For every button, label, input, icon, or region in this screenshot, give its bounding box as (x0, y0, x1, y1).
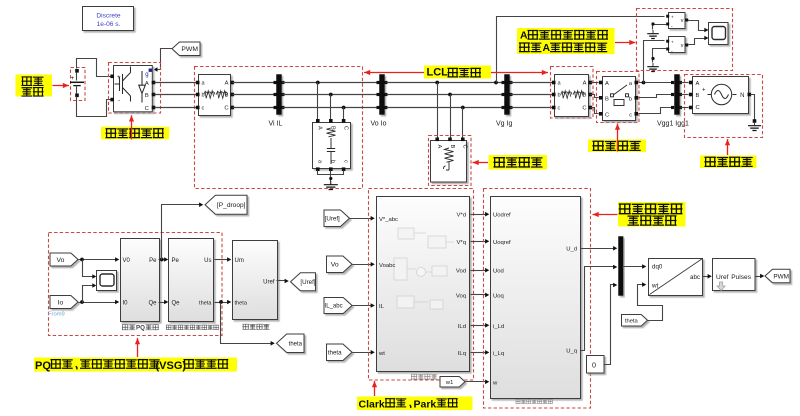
red arrow LCL right (491, 72, 548, 74)
svg-text:[P_droop]: [P_droop] (217, 202, 246, 209)
svg-text:b: b (558, 93, 561, 99)
subsystem reference voltage 参考电压 (233, 241, 278, 320)
wire battery plus to inverter + (77, 59, 111, 77)
svg-text:A: A (317, 126, 323, 130)
wire phase A down to capacitor block (317, 83, 319, 120)
From tag Vo (transform) (327, 256, 353, 273)
wires VoIo to VgIg phase A (387, 82, 503, 84)
svg-text:IL_abc: IL_abc (325, 304, 343, 310)
svg-text:b: b (629, 96, 632, 102)
label dual loop control 电压电流双闭环控制 (618, 202, 686, 227)
constant block 0 (587, 356, 605, 374)
local load red dashed box (429, 136, 472, 186)
svg-text:B: B (696, 93, 700, 99)
wires phase C (387, 107, 503, 109)
measurement bar Vi IL (277, 75, 282, 115)
dq0 to abc transform block (649, 259, 703, 296)
svg-text:c: c (343, 160, 349, 163)
svg-text:A: A (436, 145, 442, 149)
wire bus phase A inverter to L1 (155, 82, 197, 84)
From tag IL_abc (324, 298, 352, 314)
ground under capacitor block (330, 181, 332, 185)
voltage measurement block VM2 (669, 37, 686, 53)
svg-text:C: C (582, 106, 586, 112)
label phase A voltages 2-line (517, 28, 615, 54)
svg-text:B: B (145, 93, 149, 99)
wire U_q to mux (581, 267, 615, 351)
red arrow LCL left (364, 72, 424, 74)
svg-text:V0: V0 (123, 258, 131, 264)
LCL filter inverter-side inductor block L1 (199, 75, 231, 116)
junction node load tap C (461, 106, 465, 110)
svg-text:Us: Us (204, 258, 211, 264)
svg-text:v: v (681, 43, 684, 49)
label DC power 直流电源 (16, 75, 53, 97)
local load resistor icon (444, 148, 454, 170)
three-phase inverter bridge U1 red dashed box (109, 63, 161, 114)
subsystem VSG control 虚拟同步发电机控制 (169, 239, 214, 322)
Goto tag theta (left) (277, 334, 305, 353)
svg-text:I0: I0 (123, 301, 129, 307)
junction phase A to voltage measurement (494, 81, 498, 85)
red arrow to measurement box (615, 42, 636, 44)
wire U_d to mux (581, 248, 615, 250)
wires phase B (387, 94, 503, 96)
wire load tap B down (450, 95, 452, 139)
label inverter 三相逆变桥 (101, 127, 169, 140)
red arrow up to PQ box (137, 338, 139, 357)
From tag Uref -> Vabc ref (324, 210, 350, 227)
svg-text:C: C (605, 112, 609, 118)
svg-text:Io: Io (58, 299, 64, 306)
three-phase AC source block (693, 77, 749, 114)
mux bar (619, 237, 624, 296)
junction node load tap B (448, 93, 452, 97)
svg-text:Qe: Qe (148, 301, 157, 307)
svg-text:Voq: Voq (456, 293, 466, 299)
wire breaker a to Vgg1 (639, 82, 673, 84)
svg-text:wt: wt (378, 351, 385, 357)
wire theta to wt (353, 352, 373, 354)
LCL filter capacitor block (three-phase RC) (313, 123, 351, 169)
svg-text:U_d: U_d (566, 247, 577, 253)
Goto tag Uref (291, 273, 316, 291)
wire load tap A down (437, 83, 439, 139)
wire tap up to Va measurement (497, 17, 665, 83)
PWM generator block Uref Pulses (713, 259, 756, 291)
wire IL_abc to IL (353, 305, 373, 307)
svg-text:B: B (449, 145, 455, 149)
svg-text:+: + (117, 75, 121, 81)
wire battery minus to inverter - (77, 97, 111, 117)
junction node load tap A (435, 81, 439, 85)
svg-text:A: A (520, 30, 528, 42)
VSG block name (166, 325, 218, 329)
svg-text:wt: wt (651, 283, 658, 290)
svg-text:+: + (671, 14, 674, 19)
wire VgIg to L2 phase B (511, 94, 553, 96)
svg-text:i_Lq: i_Lq (493, 351, 504, 357)
scope block (two traces) (709, 23, 729, 45)
svg-text:Vo: Vo (331, 262, 339, 269)
label PQ VSG control (34, 358, 237, 372)
PWM generator down-arrow icon (717, 282, 725, 291)
wire transform output 6 to dual-loop input 6 (471, 352, 487, 354)
subsystem real-time PQ calculation (121, 239, 160, 322)
capacitor block RC icon (327, 128, 336, 164)
wire N to ground (751, 95, 755, 120)
VM2 minus to ground (653, 49, 667, 63)
red arrow to DC source (53, 85, 70, 87)
svg-text:abc: abc (690, 274, 700, 281)
svg-text:From9: From9 (48, 312, 65, 318)
wire theta down to theta goto (221, 303, 273, 344)
Goto tag P_droop (205, 195, 247, 214)
label Clark Park transforms (357, 397, 473, 411)
svg-text:A: A (696, 81, 700, 87)
transform block name 坐标变换 (411, 374, 437, 379)
wire cap b to ground (330, 171, 332, 185)
ref voltage block name 参考电压 (243, 324, 269, 329)
svg-text:c: c (202, 106, 205, 112)
svg-text:Um: Um (235, 258, 244, 264)
svg-text:theta: theta (625, 318, 639, 324)
wire mux to dq0 (623, 266, 645, 268)
svg-text:Vo: Vo (56, 257, 64, 264)
svg-text:ILd: ILd (458, 324, 466, 330)
From tag Vo (50, 253, 78, 266)
Clark Park transform red dashed box (369, 189, 474, 381)
svg-text:V*q: V*q (457, 240, 467, 246)
svg-text:PWM: PWM (773, 273, 789, 280)
wire Vgg1 to source C (681, 107, 689, 109)
svg-text:c: c (629, 112, 632, 118)
svg-text:U_q: U_q (566, 349, 577, 355)
measurement bar Vo Io (380, 75, 385, 115)
wire breaker c to Vgg1 (639, 108, 673, 114)
svg-text:PQ: PQ (136, 325, 145, 332)
svg-text:PWM: PWM (181, 46, 198, 53)
svg-text:c: c (558, 106, 561, 112)
svg-text:Vo Io: Vo Io (371, 121, 387, 128)
wire Vo to Voabc (353, 264, 373, 266)
wire phase C (283, 107, 379, 109)
wire L2 B to breaker B (591, 95, 599, 98)
svg-text:Uodref: Uodref (493, 213, 511, 219)
AC grid red dashed box (685, 75, 763, 138)
powergui block Discrete 1e-06 s. (83, 7, 134, 31)
svg-text:theta: theta (235, 301, 248, 307)
wire L2 A to breaker A (591, 82, 599, 84)
svg-text:Qe: Qe (172, 301, 181, 307)
From tag theta (transform) (327, 344, 353, 361)
red arrow left to dual loop box (593, 214, 618, 216)
wire transform output 1 to dual-loop input 1 (471, 214, 487, 216)
dual loop block name 电压电流双闭环 (516, 400, 553, 404)
wire Io branch to scope1 (83, 286, 95, 303)
junction phase a to grid voltage measurement (642, 81, 646, 85)
wire Pe to VSG (159, 259, 167, 261)
wire bus phase B inverter to L1 (155, 94, 197, 96)
svg-text:Uref: Uref (716, 274, 729, 281)
label AC grid 交流电网 (700, 156, 757, 169)
svg-text:dq0: dq0 (652, 264, 663, 271)
wire cap a-c join (318, 171, 344, 175)
wire Us to Um (215, 259, 229, 261)
breaker switch icon (611, 85, 629, 106)
svg-text:Vod: Vod (456, 269, 466, 275)
svg-text:Vg Ig: Vg Ig (496, 121, 512, 128)
wire Uref to V*_abc (350, 218, 373, 220)
From tag w1 (440, 377, 465, 388)
wire Pulses to PWM goto (755, 276, 763, 278)
svg-text:[Uref]: [Uref] (325, 215, 340, 222)
measurement bar Vg Ig (505, 75, 510, 115)
red arrow up from Clark label (374, 381, 376, 396)
svg-text:Uod: Uod (493, 269, 504, 275)
AC source ground (754, 122, 756, 126)
svg-text:w: w (492, 380, 498, 386)
wire transform output 5 to dual-loop input 5 (471, 325, 487, 327)
svg-text:C: C (145, 106, 149, 112)
svg-text:V*_abc: V*_abc (379, 217, 398, 223)
svg-text:C: C (224, 106, 228, 112)
From tag theta (dq0) (622, 315, 648, 327)
subsystem coordinate transform block (377, 197, 470, 372)
wire transform output 4 to dual-loop input 4 (471, 294, 487, 296)
three-phase breaker block (603, 77, 636, 121)
svg-text:A: A (145, 81, 149, 87)
PQ VSG red dashed box (49, 233, 223, 336)
svg-text:C: C (462, 145, 468, 149)
red arrow up to AC grid (727, 139, 729, 155)
wire Uref to goto (277, 280, 287, 282)
svg-text:LCL: LCL (427, 67, 449, 79)
wire transform output 3 to dual-loop input 3 (471, 270, 487, 272)
red arrow up to breaker (617, 124, 619, 152)
wire breaker b to Vgg1 (639, 95, 673, 98)
svg-text:ILq: ILq (458, 351, 466, 357)
red arrow to local load (473, 162, 489, 164)
svg-text:A: A (225, 81, 229, 87)
wire VgIg to L2 phase C (511, 107, 553, 109)
DC source red dashed box (71, 68, 86, 101)
wire VM2 v to scope input 2 (689, 39, 707, 45)
three-phase inverter bridge block (114, 66, 153, 112)
wire Io to PQ I0 (79, 302, 117, 304)
wire VM1 v to scope input 1 (689, 21, 707, 31)
wire Vo branch to scope1 (83, 260, 95, 277)
wire Qe to VSG (159, 302, 167, 304)
svg-text:Clark: Clark (359, 398, 385, 410)
junction node phase B cap tap (329, 93, 333, 97)
svg-text:g: g (145, 72, 148, 78)
DC voltage source battery (70, 69, 84, 97)
junction node phase C cap tap (342, 106, 346, 110)
From tag PWM (top) (172, 42, 200, 56)
svg-text:Discrete: Discrete (96, 13, 121, 20)
wire w1 to w port (466, 381, 487, 383)
svg-text:v: v (681, 18, 684, 24)
wire theta out (215, 302, 229, 304)
wire L1 A to Vi IL (233, 82, 275, 84)
wire L1 C to Vi IL (233, 107, 275, 109)
svg-text:(VSG): (VSG) (156, 360, 187, 372)
svg-text:Park: Park (414, 398, 437, 410)
AC source sine circle (711, 84, 731, 104)
measurement bar Vgg1 Igg1 (675, 75, 680, 115)
svg-text:PQ: PQ (35, 360, 51, 372)
mini scope block Scope1 (97, 271, 117, 291)
svg-text:theta: theta (199, 301, 212, 307)
wire ViIL to VoIo phase A with cap taps (283, 82, 379, 84)
wire Vgg1 to source B (681, 94, 689, 96)
svg-text:[Uref]: [Uref] (300, 279, 315, 286)
svg-text:1e-06 s.: 1e-06 s. (97, 21, 121, 28)
label LCL filter LCL滤波器 (424, 66, 491, 79)
wire 0 to mux (605, 285, 615, 365)
wire L1 B to Vi IL (233, 94, 275, 96)
grid breaker red dashed box (597, 72, 640, 123)
label breaker 并网开关 (588, 140, 646, 153)
svg-text:Uoq: Uoq (493, 293, 504, 299)
red arrow up to inverter (131, 115, 133, 139)
svg-text:A: A (605, 81, 609, 87)
wire abc to Uref Pulses (703, 276, 710, 278)
wire Vgg1 to source A (681, 82, 689, 84)
svg-text:A: A (543, 42, 551, 54)
svg-text:i_Ld: i_Ld (493, 324, 504, 330)
wire Pe up to P_droop goto (162, 205, 201, 260)
junction node phase A cap tap (316, 81, 320, 85)
local load block (431, 141, 467, 183)
svg-text:b: b (330, 160, 336, 163)
wire PWM tag to inverter gate g (154, 49, 173, 72)
dual loop control red dashed box (484, 189, 591, 409)
wire load tap C down (462, 108, 464, 139)
LCL filter left red dashed box (195, 67, 363, 189)
svg-text:0: 0 (592, 361, 596, 370)
svg-text:theta: theta (328, 349, 342, 356)
svg-text:w1: w1 (445, 380, 453, 386)
svg-text:N: N (740, 93, 744, 99)
wire up to Vb measurement (644, 41, 665, 83)
svg-text:+: + (71, 75, 75, 82)
phase A measurement red dashed box (637, 9, 733, 71)
svg-text:Pe: Pe (172, 258, 180, 264)
svg-text:-: - (118, 98, 120, 105)
svg-text:+: + (702, 88, 706, 94)
inverter IGBT and diode icon (115, 67, 146, 103)
LCL filter right red dashed box (551, 67, 594, 119)
svg-text:Uref: Uref (263, 279, 275, 285)
LCL grid-side inductor block L2 (555, 75, 589, 117)
svg-text:Uoqref: Uoqref (493, 240, 511, 246)
svg-text:B: B (605, 96, 609, 102)
svg-text:Voabc: Voabc (379, 263, 395, 269)
Goto tag PWM (bottom right) (765, 269, 790, 283)
label local load 本地负载 (489, 155, 548, 170)
wire bus phase C inverter to L1 (155, 107, 197, 109)
svg-text:V*d: V*d (457, 213, 467, 219)
wire transform output 2 to dual-loop input 2 (471, 241, 487, 243)
wire L2 C to breaker C (591, 108, 599, 114)
wire Vo to PQ V0 (79, 259, 117, 261)
svg-text:A: A (583, 81, 587, 87)
PQ block name 实时PQ计算 (122, 325, 135, 330)
wire VgIg to L2 phase A (511, 82, 553, 84)
wire theta to wt of dq0 (638, 285, 663, 321)
svg-text:Pe: Pe (149, 258, 157, 264)
ghost sub-diagram inside transform block (394, 228, 454, 309)
svg-text:IL: IL (379, 304, 385, 310)
svg-text:Vi IL: Vi IL (269, 121, 283, 128)
svg-text:C: C (343, 126, 349, 130)
wire phase B down to capacitor block (330, 95, 332, 120)
wire phase B (283, 94, 379, 96)
svg-text:+: + (671, 39, 674, 44)
svg-text:C: C (696, 105, 700, 111)
wire phase C down to capacitor block (343, 108, 345, 120)
From tag Io (50, 296, 78, 309)
voltage measurement block VM1 (669, 13, 686, 29)
svg-text:Pulses: Pulses (731, 274, 751, 281)
subsystem voltage current dual closed-loop block (491, 197, 581, 399)
VM1 minus to ground (653, 25, 667, 30)
svg-text:theta: theta (289, 341, 303, 347)
